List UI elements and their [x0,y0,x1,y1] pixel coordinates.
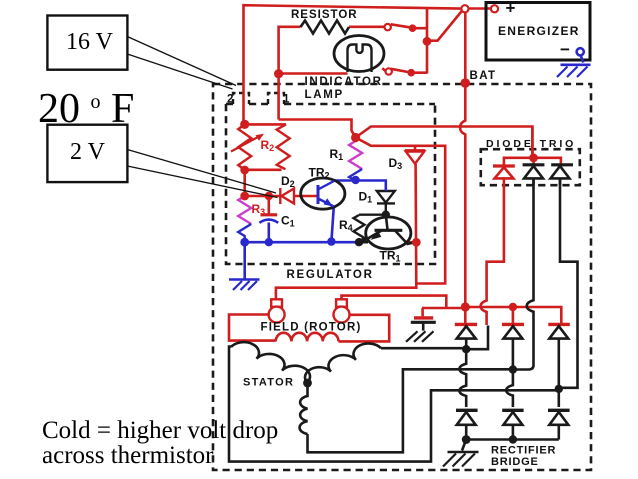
svg-text:DIODE TRIO: DIODE TRIO [486,138,576,150]
svg-text:RECTIFIER: RECTIFIER [491,444,556,456]
svg-text:C1: C1 [281,214,295,229]
svg-text:RESISTOR: RESISTOR [291,9,358,21]
svg-text:REGULATOR: REGULATOR [287,269,374,281]
svg-text:R1: R1 [330,147,344,162]
svg-text:+: + [506,0,516,18]
svg-text:BRIDGE: BRIDGE [491,456,539,468]
svg-text:1: 1 [283,94,290,106]
svg-text:D1: D1 [359,190,373,205]
svg-text:−: − [560,40,570,59]
svg-text:FIELD (ROTOR): FIELD (ROTOR) [261,321,362,333]
svg-text:BAT: BAT [470,70,497,82]
svg-text:D3: D3 [389,156,403,171]
svg-text:2: 2 [227,94,233,106]
svg-text:TR1: TR1 [380,249,401,264]
svg-text:R3: R3 [252,202,266,217]
svg-text:R4: R4 [339,218,353,233]
svg-text:INDICATOR: INDICATOR [305,76,383,88]
svg-text:LAMP: LAMP [305,89,344,101]
svg-text:D2: D2 [281,174,295,189]
svg-text:R2: R2 [261,138,275,153]
svg-text:STATOR: STATOR [243,376,294,388]
svg-text:ENERGIZER: ENERGIZER [498,24,580,38]
svg-text:TR2: TR2 [309,166,330,181]
